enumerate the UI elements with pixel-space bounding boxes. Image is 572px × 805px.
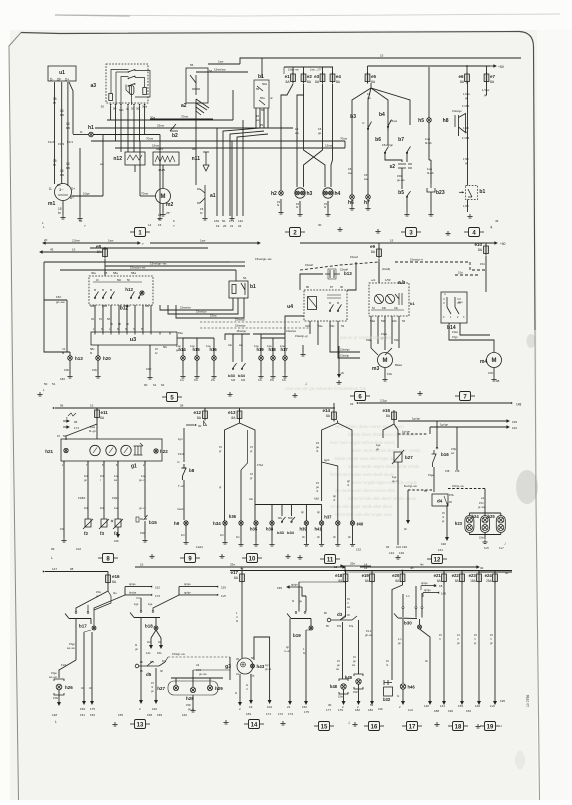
svg-text:h20: h20 (103, 356, 111, 361)
svg-text:15: 15 (390, 239, 394, 243)
svg-text:147: 147 (52, 567, 57, 571)
lamp h19 (259, 356, 264, 361)
svg-text:58: 58 (180, 404, 184, 408)
svg-text:e1: e1 (285, 74, 291, 79)
fuse e15 (392, 410, 397, 422)
svg-text:15rt: 15rt (458, 271, 463, 275)
svg-text:15br: 15br (338, 696, 343, 699)
svg-text:30e: 30e (91, 271, 96, 275)
wire (347, 262, 356, 290)
wire (61, 82, 63, 184)
ground (147, 375, 152, 379)
wire bus 70sw (91, 140, 232, 142)
sender f2 (83, 519, 93, 529)
svg-text:+50: +50 (498, 65, 504, 69)
fog lamp unit h23 h24 h25 (484, 489, 486, 514)
svg-text:53a: 53a (178, 331, 183, 335)
svg-text:h2: h2 (271, 191, 277, 197)
svg-text:sw: sw (60, 173, 65, 177)
svg-text:h12: h12 (125, 287, 133, 292)
svg-text:51: 51 (52, 382, 56, 386)
wire (134, 305, 136, 332)
ground (77, 216, 82, 220)
svg-text:e10: e10 (474, 242, 482, 247)
wire (351, 200, 353, 206)
fuse e21 (442, 572, 447, 584)
svg-text:h5: h5 (418, 118, 424, 124)
lamp h6 (350, 195, 355, 200)
svg-text:2,5sw: 2,5sw (72, 239, 81, 243)
svg-text:19: 19 (487, 724, 494, 730)
wire (120, 106, 122, 153)
svg-text:15br: 15br (353, 691, 358, 694)
wire (115, 106, 117, 142)
wire (267, 108, 269, 128)
wire (110, 305, 112, 332)
wire (385, 152, 402, 162)
wire bus (60, 269, 236, 271)
svg-text:1,5br: 1,5br (463, 157, 469, 161)
wire (486, 82, 488, 96)
svg-text:96: 96 (74, 420, 78, 424)
wires d3 to h48 h49 (342, 622, 344, 679)
svg-text:h3: h3 (307, 191, 313, 197)
svg-text:tgr: tgr (333, 494, 336, 498)
wire riser e10 (485, 244, 487, 247)
svg-text:b1: b1 (258, 74, 264, 80)
svg-text:96: 96 (60, 404, 64, 408)
ground (282, 374, 287, 378)
ground (278, 210, 283, 214)
ground (67, 374, 72, 378)
svg-text:155: 155 (221, 586, 226, 590)
svg-text:δ51: δ51 (119, 108, 124, 112)
lamp pill h23 (465, 516, 474, 533)
wire bus 15swlgn-ws (105, 259, 245, 266)
svg-text:141: 141 (146, 651, 151, 655)
svg-text:neer neer ungde schen slute aa: neer neer ungde schen slute aaner (330, 440, 396, 445)
svg-text:15sw/ge: 15sw/ge (452, 109, 462, 113)
svg-text:9ß: 9ß (192, 147, 196, 151)
svg-text:15w: 15w (96, 590, 101, 594)
box 17 (402, 722, 422, 731)
svg-text:15βr: 15βr (451, 447, 456, 451)
svg-text:gh–sw: gh–sw (365, 633, 373, 637)
ground (349, 206, 354, 210)
blower motor m4 (487, 353, 502, 368)
wire (458, 127, 460, 136)
wires b1 to b12 bus (160, 298, 233, 310)
svg-text:30: 30 (328, 703, 332, 707)
svg-text:4rt: 4rt (420, 563, 424, 567)
svg-text:h22: h22 (160, 449, 168, 454)
wire e11 down (66, 418, 97, 440)
svg-text:25sw: 25sw (157, 124, 165, 128)
wire (69, 82, 73, 134)
svg-text:h16: h16 (210, 347, 218, 352)
wire (204, 203, 206, 216)
border frame (21, 32, 535, 331)
svg-text:1,5sw: 1,5sw (482, 88, 490, 92)
svg-text:58R: 58R (288, 517, 293, 520)
svg-text:┘: ┘ (499, 724, 503, 729)
wire (284, 338, 286, 356)
fuse e12 (203, 409, 208, 421)
wires top right of a2 (196, 71, 248, 73)
svg-text:gr: gr (250, 449, 252, 453)
svg-text:h21: h21 (45, 449, 53, 454)
wire (280, 199, 282, 210)
svg-text:br: br (397, 695, 399, 698)
svg-text:58L: 58L (278, 517, 283, 520)
svg-text:15: 15 (140, 563, 144, 567)
wire (467, 200, 469, 213)
svg-text:31b: 31b (392, 319, 397, 323)
svg-text:8A: 8A (307, 80, 312, 84)
wire (406, 198, 408, 212)
fuse e5 (365, 72, 370, 84)
wire (493, 368, 495, 378)
wire bus 70sw upper (150, 118, 213, 120)
svg-text:1gr/ge: 1gr/ge (402, 430, 410, 434)
sender f4 (113, 519, 123, 529)
svg-text:15/1: 15/1 (196, 668, 202, 672)
svg-text:175: 175 (304, 710, 309, 714)
wire arrows column (124, 587, 126, 595)
svg-text:15br: 15br (114, 540, 119, 543)
box 8 (98, 554, 118, 563)
svg-text:132: 132 (356, 548, 361, 552)
wire dashed 15swfl (300, 262, 379, 270)
svg-text:99: 99 (51, 547, 55, 551)
svg-text:1sw: 1sw (190, 344, 195, 348)
svg-text:21: 21 (230, 224, 234, 228)
box 15 (314, 722, 334, 731)
dim 15-25rt (341, 565, 371, 567)
svg-text:AΔ: AΔ (249, 497, 253, 501)
wire (299, 201, 301, 212)
ground m2 (160, 212, 165, 216)
svg-text:e14: e14 (322, 408, 330, 413)
svg-text:F 15/4: F 15/4 (462, 136, 470, 140)
svg-text:b17: b17 (79, 624, 87, 629)
svg-text:15: 15 (334, 565, 338, 569)
svg-text:192: 192 (152, 707, 157, 711)
svg-text:rt: rt (347, 601, 349, 605)
wire (142, 305, 144, 332)
svg-text:1v0: 1v0 (408, 708, 413, 712)
svg-text:h46: h46 (408, 685, 416, 690)
svg-text:B+: B+ (70, 196, 74, 200)
svg-text:a1: a1 (210, 193, 216, 199)
svg-text:1ws→177: 1ws→177 (310, 68, 322, 72)
wire branch to h37 (322, 462, 338, 521)
svg-text:20: 20 (44, 238, 48, 242)
svg-text:e3: e3 (314, 74, 320, 79)
clock g3 (237, 658, 253, 674)
lamp pill right (496, 516, 505, 533)
wire lamp b30 down (420, 629, 431, 701)
fuse e2 (301, 72, 306, 84)
lighting switch b12 (89, 276, 153, 305)
svg-text:tbr: tbr (348, 536, 351, 539)
wire bus tgrlge arrows (125, 586, 152, 588)
svg-text:tbr: tbr (302, 536, 305, 539)
svg-text:1ge: 1ge (392, 475, 397, 479)
node 147-98 (43, 570, 45, 572)
svg-text:15br: 15br (387, 372, 392, 376)
wires below g1 (63, 461, 65, 538)
svg-text:b2: b2 (172, 133, 178, 139)
svg-text:1br: 1br (89, 687, 93, 690)
fuse e18 (343, 572, 348, 584)
ground (375, 229, 380, 233)
wire top bus tgrlge arrows (398, 420, 508, 422)
svg-text:15sw: 15sw (390, 119, 398, 123)
box 18 (448, 722, 468, 731)
svg-text:102: 102 (267, 705, 272, 709)
ground (157, 216, 162, 220)
box 6 (350, 392, 370, 401)
box 13 (130, 720, 150, 729)
ground (428, 212, 433, 216)
wire 70sw bus (232, 140, 345, 142)
svg-text:b33: b33 (228, 373, 236, 378)
fuse e23 (477, 572, 482, 584)
svg-text:sw: sw (114, 479, 117, 482)
svg-text:D+: D+ (65, 78, 69, 82)
svg-text:e19: e19 (362, 573, 370, 578)
svg-text:15br: 15br (140, 532, 145, 535)
svg-text:b5: b5 (398, 190, 404, 196)
svg-text:sw–ws: sw–ws (49, 676, 57, 679)
svg-text:schde elte ingde verde alter d: schde elte ingde verde alter derer (330, 504, 393, 509)
svg-text:b7: b7 (398, 137, 404, 143)
svg-text:gn–rτ: gn–rτ (392, 479, 398, 483)
svg-text:h4: h4 (335, 191, 341, 197)
svg-text:56a: 56a (260, 96, 265, 100)
wire (183, 480, 185, 520)
wire 70sw (140, 195, 156, 197)
wire (384, 368, 386, 378)
ground (404, 212, 409, 216)
svg-text:15r: 15r (60, 527, 64, 531)
svg-text:173: 173 (229, 219, 234, 223)
ground (229, 216, 234, 220)
svg-text:tgr/ge: tgr/ge (129, 582, 136, 586)
svg-text:1gr: 1gr (265, 664, 269, 667)
wire (428, 67, 430, 118)
svg-text:58d: 58d (117, 279, 122, 282)
svg-text:e8: e8 (96, 244, 102, 249)
wire (62, 201, 64, 216)
wire (185, 525, 187, 540)
fuse e16 (106, 573, 111, 585)
svg-text:15sw: 15sw (325, 144, 333, 148)
svg-text:141: 141 (440, 704, 445, 708)
svg-text:8A: 8A (371, 250, 376, 254)
regulator u1 (48, 66, 76, 81)
wire dashed d5 (168, 656, 230, 658)
svg-text:132: 132 (238, 219, 243, 223)
lamp h43 (251, 664, 255, 668)
svg-text:50: 50 (222, 219, 226, 223)
svg-text:tgr: tgr (317, 511, 320, 514)
a3 contacts (128, 70, 135, 87)
svg-text:gn–r1: gn–r1 (139, 478, 146, 482)
wire (159, 135, 161, 189)
wires below u3 (69, 352, 71, 356)
contact (110, 291, 114, 298)
wire (102, 305, 104, 332)
svg-text:gr: gr (219, 449, 221, 453)
svg-text:61: 61 (153, 383, 157, 387)
svg-text:b1: b1 (479, 189, 485, 195)
wire (260, 338, 262, 356)
svg-text:N: N (125, 328, 127, 331)
wires b14 to m4 (449, 323, 494, 352)
svg-text:u3: u3 (130, 337, 136, 343)
svg-text:1br: 1br (81, 687, 85, 690)
svg-text:s2: s2 (389, 164, 395, 170)
svg-text:155: 155 (277, 586, 282, 590)
svg-text:m4: m4 (480, 359, 487, 365)
svg-text:M: M (161, 194, 166, 200)
wire (367, 160, 369, 195)
svg-text:rτ: rτ (490, 638, 492, 641)
svg-text:rt: rt (236, 615, 238, 619)
svg-text:30: 30 (480, 566, 484, 570)
svg-text:br: br (277, 203, 280, 207)
wire fan from e14 (322, 421, 338, 502)
svg-text:148: 148 (516, 403, 522, 407)
svg-text:11Δ4: 11Δ4 (196, 545, 203, 549)
wire (433, 467, 435, 492)
svg-text:8A: 8A (371, 80, 376, 84)
svg-text:8A: 8A (460, 80, 465, 84)
lamp h9 (184, 521, 188, 525)
wire bus arrows b18 (179, 586, 218, 588)
svg-text:rτ: rτ (474, 638, 476, 641)
svg-text:190: 190 (441, 542, 446, 546)
svg-text:30: 30 (198, 424, 202, 428)
svg-text:h48: h48 (330, 684, 338, 689)
svg-text:bl: bl (80, 130, 83, 134)
fuse e10 (484, 244, 489, 256)
switch b23 (427, 184, 435, 192)
instrument cluster g1 (61, 439, 162, 461)
svg-text:bl–gn: bl–gn (89, 429, 96, 433)
box 2 (285, 228, 305, 237)
svg-text:F1/3: F1/3 (58, 142, 64, 146)
svg-text:15rt: 15rt (480, 262, 485, 266)
box 16 (364, 722, 384, 731)
svg-text:gr: gr (96, 594, 98, 598)
wire bus 25sw (95, 127, 293, 129)
wire dashed B+ (408, 489, 432, 491)
svg-text:1sw: 1sw (218, 60, 224, 64)
svg-text:87Δ: 87Δ (449, 493, 454, 497)
svg-text:159: 159 (80, 707, 85, 711)
wire (387, 126, 389, 145)
svg-text:162: 162 (155, 586, 160, 590)
wires a.b to m3 (370, 316, 372, 348)
svg-text:15rt/gr–sw: 15rt/gr–sw (452, 485, 464, 488)
svg-text:1sw: 1sw (206, 344, 211, 348)
wires below g3 (239, 674, 241, 702)
u3 terminal ticks (94, 332, 96, 335)
svg-text:62: 62 (161, 383, 165, 387)
lamp h13 (68, 356, 73, 361)
svg-text:1sw: 1sw (114, 474, 119, 478)
svg-text:50: 50 (44, 382, 48, 386)
a3 cylinder (129, 86, 134, 95)
box 4 (464, 228, 484, 237)
svg-text:15sw/ws: 15sw/ws (286, 329, 297, 333)
svg-text:d4: d4 (437, 499, 443, 504)
svg-text:8A: 8A (231, 416, 236, 420)
ground (482, 540, 487, 544)
wire (94, 134, 161, 136)
svg-text:h35: h35 (250, 527, 258, 532)
svg-text:m2: m2 (166, 202, 173, 208)
lamp h34 (223, 521, 227, 525)
horn relay a2 (186, 68, 208, 103)
svg-text:h26: h26 (65, 685, 73, 690)
wire bus 30a (107, 119, 233, 121)
svg-text:15rt/gn–sw: 15rt/gn–sw (172, 652, 185, 656)
svg-text:h38: h38 (266, 527, 274, 532)
svg-text:31b: 31b (394, 307, 399, 310)
wire (235, 270, 237, 281)
svg-text:152: 152 (302, 705, 307, 709)
svg-text:ge-sw: ge-sw (397, 178, 405, 182)
wire e5 fan (352, 83, 371, 155)
svg-text:b6: b6 (375, 137, 381, 143)
svg-text:h13: h13 (75, 356, 83, 361)
svg-text:e13: e13 (228, 410, 236, 415)
svg-text:15br: 15br (186, 704, 191, 707)
ground (467, 214, 472, 218)
svg-text:30: 30 (136, 107, 140, 111)
svg-text:30: 30 (318, 223, 322, 227)
box 1 (130, 228, 150, 237)
ground m1 (60, 215, 65, 219)
lamp h4 (323, 188, 333, 198)
svg-text:25rt: 25rt (230, 563, 235, 567)
contact (94, 291, 98, 298)
svg-text:scher lichtde elde derer remde: scher lichtde elde derer remde aante (348, 496, 417, 501)
svg-text:b13: b13 (344, 271, 352, 276)
wire e20 down-left (392, 583, 403, 680)
lamp h14 (181, 356, 186, 361)
svg-text:1v5: 1v5 (484, 546, 489, 550)
svg-text:aande verde ungen derde schte: aande verde ungen derde schte schde (348, 464, 420, 469)
svg-text:g3: g3 (225, 664, 231, 670)
svg-text:15ge: 15ge (428, 473, 434, 477)
wire 15sw (311, 147, 345, 149)
wire (397, 462, 399, 545)
coil symbol (134, 443, 144, 455)
svg-text:15ge: 15ge (69, 642, 75, 646)
svg-text:1br: 1br (220, 533, 224, 537)
svg-text:gr: gr (219, 485, 221, 489)
wire (182, 338, 184, 356)
svg-text:70sw: 70sw (181, 115, 189, 119)
svg-text:b33: b33 (231, 379, 236, 382)
svg-text:rτ: rτ (457, 638, 459, 641)
svg-text:sw: sw (66, 126, 71, 130)
